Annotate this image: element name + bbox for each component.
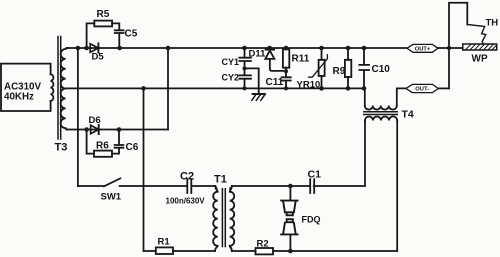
node R9 on mid rail <box>346 86 351 91</box>
AC source box with T3 primary winding on right edge <box>51 74 54 101</box>
wire OUT- to vertical riser <box>438 87 449 89</box>
node rectifier join on top rail <box>166 46 171 51</box>
node top rail / SW1 branch <box>76 46 81 51</box>
svg-text:R1: R1 <box>158 237 171 248</box>
node CY1-CY2 midpoint <box>243 66 247 70</box>
spark gap FDQ top electrode <box>281 201 297 216</box>
transformer T3 secondary winding <box>61 48 68 130</box>
node D11 on top rail <box>267 46 272 51</box>
thermostat TH bimetal zigzag to WP <box>482 27 486 45</box>
resistor R5 <box>94 21 112 27</box>
svg-text:T4: T4 <box>402 109 414 121</box>
wire bottom to R1 <box>144 250 156 252</box>
svg-text:TH: TH <box>486 18 499 29</box>
wire R5 to C5 <box>112 23 119 29</box>
transformer T1 primary winding <box>213 186 218 251</box>
wire T4 primary left lead to rail <box>364 88 366 105</box>
resistor R1 <box>156 247 173 254</box>
wire D11 anode L-path to R11 bottom node <box>270 59 286 71</box>
capacitor C1 <box>310 179 314 193</box>
wire top rail y=48 from T3 top tap to OUT+ connector <box>67 47 408 49</box>
wire C6 up to D6 cathode node <box>118 130 120 145</box>
capacitor CY2 <box>244 62 246 75</box>
svg-text:R9: R9 <box>333 66 346 77</box>
svg-text:D11: D11 <box>249 49 267 60</box>
node D5 cathode / snubber <box>117 46 122 51</box>
ground <box>253 93 265 95</box>
svg-text:C5: C5 <box>125 29 138 40</box>
spark gap FDQ bottom lead <box>289 234 291 251</box>
wire T1 secondary bottom to R2 <box>232 250 256 252</box>
switch SW1 blade <box>104 178 120 186</box>
wire R6 to C6 <box>112 148 119 153</box>
spark gap FDQ bottom electrode <box>281 219 297 234</box>
wire T1 secondary top to C1 <box>232 185 310 187</box>
spark gap FDQ top lead <box>289 186 291 199</box>
thermostat TH contact arm <box>467 25 484 27</box>
svg-text:R5: R5 <box>97 9 110 20</box>
node center-tap branch <box>141 86 146 91</box>
wire C1 to T4 secondary left lead <box>314 121 365 187</box>
svg-text:100n/630V: 100n/630V <box>166 197 206 206</box>
wire middle rail (center tap) y=88.4 <box>67 87 365 89</box>
node C11 on mid rail <box>284 86 288 90</box>
transformer T3 core <box>58 37 61 140</box>
varistor YR10 <box>321 48 323 88</box>
connector OUT- <box>406 84 438 92</box>
svg-text:C1: C1 <box>308 169 322 181</box>
resistor R6 <box>94 151 112 157</box>
wire OUT+ to WP heater <box>438 47 463 49</box>
node C10 / T4 on mid rail <box>362 86 367 91</box>
svg-text:C2: C2 <box>180 171 194 183</box>
wire C5 down to rail <box>118 34 120 48</box>
node R11-C11 junction <box>284 69 288 73</box>
transformer T1 phase dots <box>215 187 218 190</box>
diode D5 <box>90 44 98 52</box>
svg-text:OUT+: OUT+ <box>415 46 431 52</box>
resistor R2 <box>256 248 274 254</box>
svg-text:SW1: SW1 <box>101 192 122 203</box>
node D6 anode / snubber <box>84 127 89 132</box>
capacitor C5 <box>115 30 124 33</box>
node WP riser crossing <box>447 46 451 50</box>
node CY1 on top rail <box>242 46 247 51</box>
connector OUT+ <box>407 44 438 52</box>
svg-text:R11: R11 <box>292 54 310 65</box>
svg-text:FDQ: FDQ <box>302 215 321 225</box>
node FDQ bottom <box>288 249 293 254</box>
resistor R6 snubber loop leads <box>87 130 94 154</box>
svg-text:YR10: YR10 <box>297 80 321 91</box>
svg-text:C6: C6 <box>126 142 139 153</box>
transformer T1 core <box>222 189 225 247</box>
transformer T4 core <box>364 112 398 115</box>
diode D11 <box>269 48 271 49</box>
wire T4 primary right lead to OUT- <box>397 88 406 105</box>
resistor R5 snubber loop leads <box>87 23 95 48</box>
svg-text:R6: R6 <box>96 141 109 152</box>
svg-text:WP: WP <box>472 54 488 65</box>
wire D6 output y=129.5 <box>67 129 169 131</box>
node CY2 on mid rail <box>243 86 247 90</box>
node R9 on top rail <box>346 46 351 51</box>
node D5 anode / snubber <box>84 46 89 51</box>
svg-text:OUT-: OUT- <box>415 87 429 93</box>
node R11 on top rail <box>284 46 289 51</box>
diode D6 <box>91 125 99 133</box>
capacitor CY1 <box>244 48 246 57</box>
transformer T4 secondary winding <box>365 116 397 120</box>
wire rectifier join vertical x=168 <box>167 48 169 130</box>
resistor R9 <box>347 48 349 88</box>
wire top-rail branch down to SW1 x=78 <box>77 48 79 186</box>
svg-text:T1: T1 <box>214 174 227 186</box>
wire SW1 to C2 <box>120 185 187 187</box>
svg-text:40KHz: 40KHz <box>4 92 34 103</box>
capacitor C6 <box>115 145 124 148</box>
capacitor C11 <box>282 77 291 80</box>
wire center-tap branch down x=143.5 <box>143 88 145 251</box>
svg-text:CY1: CY1 <box>222 57 240 67</box>
node FDQ top <box>288 184 293 189</box>
capacitor C2 <box>187 179 191 193</box>
wire riser x=449 up and over to TH <box>449 3 467 89</box>
svg-text:C11: C11 <box>266 77 284 88</box>
wire R1 to T1 primary bottom <box>173 250 215 252</box>
svg-text:T3: T3 <box>55 142 68 154</box>
svg-text:CY2: CY2 <box>222 73 240 83</box>
heater element WP <box>463 44 497 50</box>
resistor R11 <box>285 48 287 77</box>
node C10 on top rail <box>362 46 367 51</box>
wire C2 to T1 primary top <box>192 185 216 187</box>
svg-text:R2: R2 <box>257 239 269 250</box>
transformer T1 secondary winding <box>230 186 235 251</box>
node D6 cathode / snubber <box>117 127 122 132</box>
svg-text:D6: D6 <box>89 115 101 126</box>
svg-text:D5: D5 <box>92 52 105 63</box>
wire SW1 left lead <box>78 185 104 187</box>
node YR10 on top rail <box>319 46 324 51</box>
capacitor C10 <box>363 48 365 64</box>
svg-text:C10: C10 <box>372 64 391 75</box>
node YR10 on mid rail <box>319 86 324 91</box>
wire R2 to T4 secondary right lead <box>273 121 397 252</box>
wire CY midpoint to ground <box>245 68 259 94</box>
transformer T4 primary winding <box>365 106 397 110</box>
